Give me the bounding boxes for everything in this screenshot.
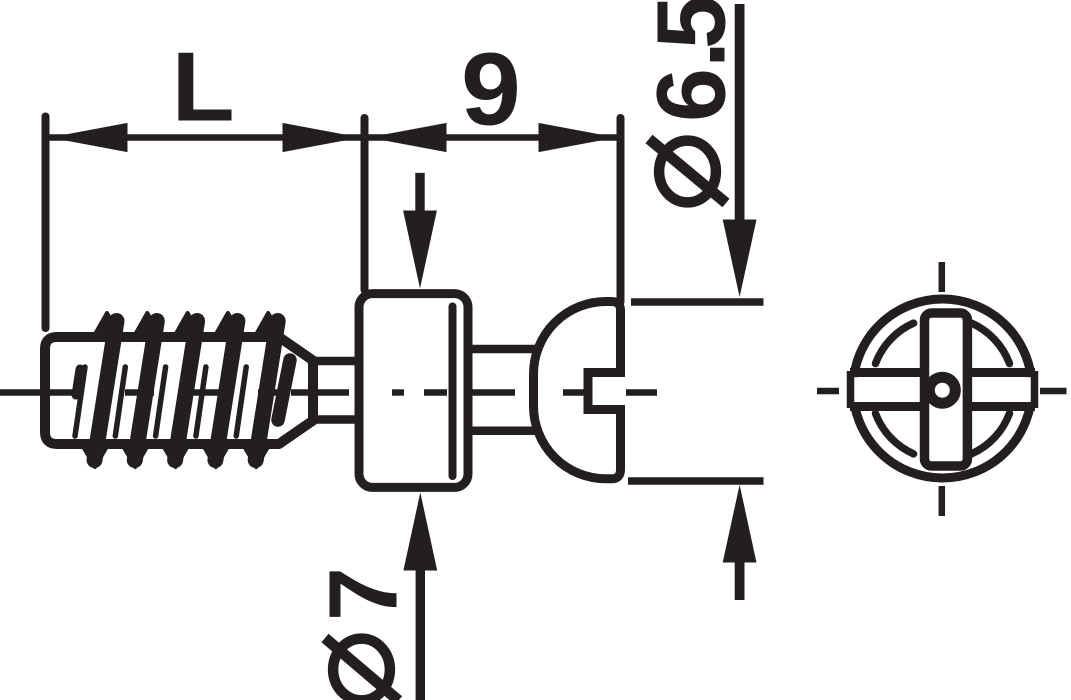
thread flank thick diagonals xyxy=(95,321,278,460)
svg-text:L: L xyxy=(172,33,235,142)
thread start stub xyxy=(76,369,80,395)
arrowhead L right xyxy=(283,123,361,152)
diameter symbol for 6.5 xyxy=(649,139,726,203)
extension line middle (x=364.5) xyxy=(361,118,369,290)
front view: slot line bottom xyxy=(850,402,1035,411)
front view: inner arc bottom-right xyxy=(971,413,1009,454)
thread flank right partial xyxy=(278,360,290,420)
svg-text:6.5: 6.5 xyxy=(636,0,745,122)
diameter symbol for 7 xyxy=(325,638,399,700)
screw threaded body outline xyxy=(45,337,313,444)
dim 6.5: vertical shaft bottom xyxy=(735,561,745,601)
reference line head bottom xyxy=(628,477,764,485)
dim 6.5: vertical line top right xyxy=(735,4,745,221)
thread crests bottom xyxy=(80,441,272,467)
svg-text:9: 9 xyxy=(461,33,521,147)
arrowhead L left xyxy=(50,123,128,152)
front view: centerline bottom xyxy=(939,486,946,516)
front view: centerline top xyxy=(939,262,946,292)
front view: center ring xyxy=(929,377,955,403)
dimension line L xyxy=(46,134,363,141)
thread crests top xyxy=(92,313,284,340)
thread root thin lines xyxy=(75,367,246,436)
front view: centerline right xyxy=(1040,388,1067,395)
front view: slot flats mask xyxy=(843,377,859,402)
arrowhead 9 left xyxy=(369,123,447,152)
neck between flange and head xyxy=(468,345,540,354)
front view: inner arc bottom-left xyxy=(876,413,914,454)
centerline main axis (dash-dot through screw) xyxy=(0,389,657,395)
arrowhead 6.5 down xyxy=(723,220,757,298)
shank between thread and flange xyxy=(313,357,362,366)
dim 7: bottom shaft xyxy=(416,569,425,700)
svg-text:7: 7 xyxy=(309,567,418,621)
extension line left (x=45) xyxy=(42,117,50,329)
extension line right (x=620.5) xyxy=(617,118,625,302)
flange (collar) xyxy=(359,294,468,488)
arrowhead 6.5 up xyxy=(723,485,757,563)
arrowhead 7 down xyxy=(403,211,437,289)
front view: inner arc top-left xyxy=(876,323,914,364)
flange inner edge line xyxy=(449,307,457,477)
front view: slot flat left xyxy=(847,371,855,408)
dimension line 9 xyxy=(365,134,621,141)
front view: slot line top xyxy=(850,368,1035,377)
front view: outer circle xyxy=(853,299,1032,478)
arrowhead 7 up xyxy=(403,493,437,571)
front view: centerline left xyxy=(817,388,839,395)
dim 7: top shaft xyxy=(415,173,424,213)
front view: inner arc top-right xyxy=(971,323,1009,364)
front view: cross recess vertical wing xyxy=(925,313,968,466)
arrowhead 9 right xyxy=(539,123,617,152)
reference line head top xyxy=(631,298,764,306)
screw head with slot xyxy=(534,302,621,479)
front view: slot flat right xyxy=(1031,371,1039,408)
